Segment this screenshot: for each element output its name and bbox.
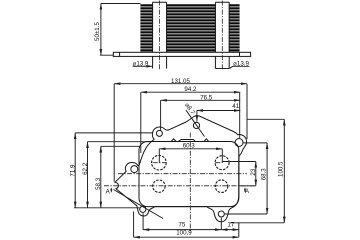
tube centerline right bbox=[221, 1, 223, 71]
right tube (side view) bbox=[215, 2, 229, 68]
port hole top-right (dashed) bbox=[215, 156, 229, 170]
svg-text:75: 75 bbox=[178, 221, 185, 228]
dimension 131.05 bbox=[114, 78, 247, 182]
dimension 50±1.5 bbox=[94, 4, 140, 56]
port hole top-left (dashed) bbox=[152, 155, 167, 170]
bump trapezoid on core top edge bbox=[178, 140, 195, 142]
tube centerline left bbox=[159, 1, 161, 71]
port center tick right bbox=[215, 162, 222, 164]
dimension 60.3 bbox=[159, 143, 222, 163]
bolt hole bottom-left ear bbox=[140, 206, 146, 212]
port hole bottom-right (dashed) bbox=[215, 180, 228, 193]
svg-text:23: 23 bbox=[250, 168, 257, 175]
vertical centerline of part bbox=[189, 133, 191, 234]
svg-text:50±1.5: 50±1.5 bbox=[94, 22, 101, 41]
bolt hole top-left bbox=[156, 130, 162, 136]
base plate (side view) bbox=[113, 52, 250, 56]
fin stack (side view) bbox=[140, 5, 239, 50]
svg-text:62.2: 62.2 bbox=[82, 162, 89, 175]
svg-text:71.9: 71.9 bbox=[70, 164, 77, 177]
bump triangle right on core top edge bbox=[204, 139, 209, 142]
svg-text:76,5: 76,5 bbox=[200, 94, 213, 101]
dimension 62.2 bbox=[82, 142, 151, 208]
dimension ⌀13.9 left bbox=[133, 60, 153, 67]
svg-text:41: 41 bbox=[232, 103, 239, 110]
svg-text:68.3: 68.3 bbox=[261, 168, 268, 181]
section arrow A left bbox=[106, 187, 113, 195]
dimension 68.3 bbox=[225, 143, 268, 214]
svg-text:100.5: 100.5 bbox=[278, 161, 285, 177]
bolt hole left-middle bbox=[131, 166, 138, 173]
flange outline (bottom view) bbox=[115, 116, 247, 222]
dimension 75 bbox=[143, 213, 239, 230]
bump triangle left on core top edge bbox=[171, 139, 176, 142]
svg-text:94.2: 94.2 bbox=[184, 86, 197, 93]
bolt hole top-right bbox=[235, 139, 243, 147]
dimension ⌀13.9 right bbox=[215, 60, 249, 68]
dimension 76.5 bbox=[161, 94, 241, 131]
dimension 23 bbox=[222, 162, 257, 186]
section diagonal leader bbox=[114, 190, 164, 219]
small hole ⌀8.7 bbox=[193, 122, 199, 128]
port center tick left bbox=[153, 162, 166, 164]
port hole bottom-left (dashed) bbox=[153, 180, 165, 192]
core rounded rect (bottom view) bbox=[139, 142, 239, 207]
section arrow A right bbox=[244, 187, 250, 195]
bolt hole bottom-right ear bbox=[218, 211, 224, 217]
section line A-A bbox=[104, 185, 256, 187]
svg-text:100.9: 100.9 bbox=[176, 230, 192, 237]
dimension 100.9 bbox=[134, 212, 239, 238]
svg-text:131.05: 131.05 bbox=[171, 78, 190, 85]
dimension 71.9 bbox=[70, 133, 154, 208]
dimension 94.2 bbox=[141, 86, 240, 153]
svg-text:60.3: 60.3 bbox=[183, 143, 196, 150]
horizontal centerline of part bbox=[118, 173, 247, 175]
label ⌀8.7 with leader bbox=[183, 102, 204, 137]
svg-text:58.3: 58.3 bbox=[95, 177, 102, 190]
left tube (side view) bbox=[153, 2, 167, 68]
dimension 58.3 bbox=[95, 146, 140, 208]
dimension 41 bbox=[197, 103, 240, 121]
dimension 100.5 bbox=[230, 119, 285, 223]
dimension 17 bbox=[221, 221, 239, 229]
